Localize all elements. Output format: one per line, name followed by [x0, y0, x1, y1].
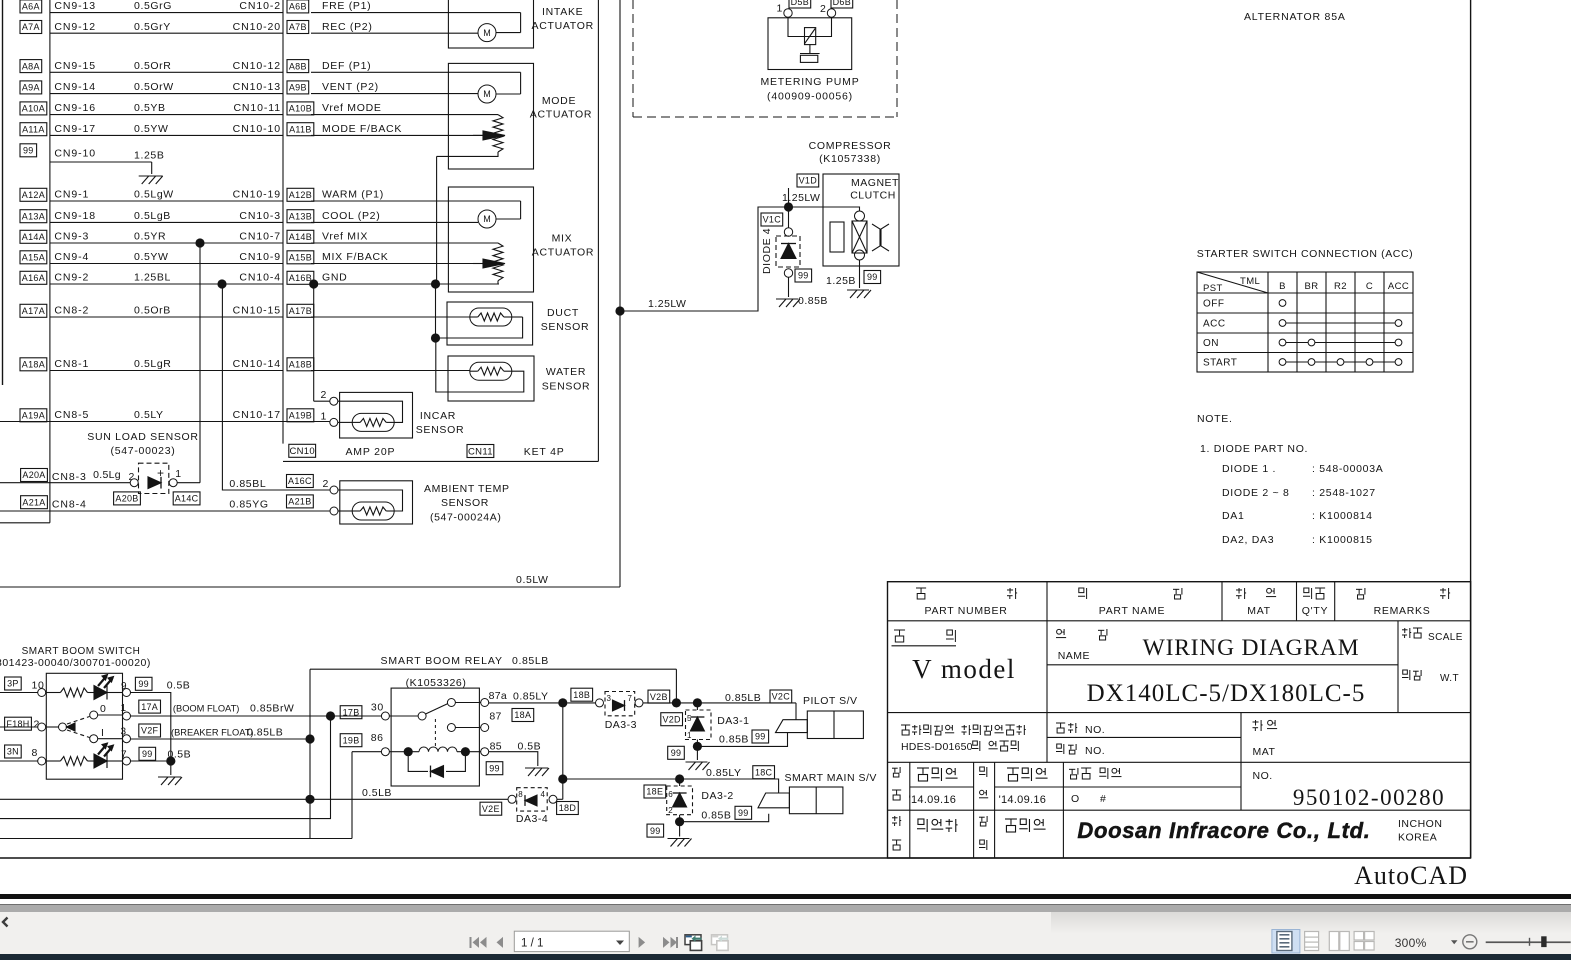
svg-text:CN9-2: CN9-2: [54, 272, 89, 284]
svg-text:(547-00023): (547-00023): [111, 445, 176, 457]
svg-text:19B: 19B: [343, 735, 360, 745]
svg-text:0.5GrG: 0.5GrG: [134, 0, 172, 12]
svg-text:V2F: V2F: [141, 726, 159, 736]
svg-text:A20B: A20B: [115, 494, 138, 504]
svg-text:A9A: A9A: [22, 83, 40, 93]
svg-text:2: 2: [668, 806, 673, 815]
svg-text:: 548-00003A: : 548-00003A: [1312, 463, 1383, 475]
svg-text:8: 8: [32, 747, 38, 759]
svg-text:ALTERNATOR 85A: ALTERNATOR 85A: [1244, 11, 1346, 23]
svg-text:MODE: MODE: [542, 95, 576, 107]
svg-text:'14.09.16: '14.09.16: [909, 794, 957, 806]
svg-text:0.85LB: 0.85LB: [512, 655, 549, 667]
svg-text:MAT: MAT: [1253, 746, 1276, 758]
svg-text:NO.: NO.: [1253, 770, 1273, 782]
svg-text:Doosan Infracore Co., Ltd.: Doosan Infracore Co., Ltd.: [1077, 818, 1370, 843]
svg-text:DX140LC-5/DX180LC-5: DX140LC-5/DX180LC-5: [1087, 680, 1366, 707]
svg-text:99: 99: [650, 826, 661, 836]
svg-text:MIX: MIX: [552, 233, 573, 245]
svg-text:PART NAME: PART NAME: [1099, 605, 1165, 617]
svg-text:CN10-20: CN10-20: [233, 21, 281, 33]
svg-text:NAME: NAME: [1058, 650, 1090, 662]
svg-text:A12B: A12B: [289, 190, 312, 200]
svg-text:CN9-12: CN9-12: [54, 21, 96, 33]
svg-text:(BOOM FLOAT): (BOOM FLOAT): [173, 704, 239, 714]
svg-text:CLUTCH: CLUTCH: [850, 190, 896, 202]
svg-text:DA3-3: DA3-3: [605, 719, 637, 731]
svg-text:C: C: [1366, 281, 1373, 292]
svg-text:A14B: A14B: [289, 232, 312, 242]
svg-text:3: 3: [607, 694, 612, 703]
svg-text:: K1000815: : K1000815: [1312, 534, 1373, 546]
svg-text:0.5YR: 0.5YR: [134, 231, 166, 243]
svg-text:KOREA: KOREA: [1398, 832, 1437, 844]
svg-text:A15B: A15B: [289, 253, 312, 263]
svg-text:0.85BrW: 0.85BrW: [250, 703, 294, 715]
svg-text:W.T: W.T: [1440, 673, 1459, 684]
svg-text:V2E: V2E: [482, 804, 500, 814]
svg-text:R2: R2: [1334, 281, 1347, 292]
svg-text:A11B: A11B: [289, 124, 312, 134]
svg-text:2: 2: [820, 3, 826, 15]
svg-text:ACC: ACC: [1388, 281, 1409, 292]
svg-text:SCALE: SCALE: [1428, 632, 1463, 643]
svg-text:A9B: A9B: [289, 83, 307, 93]
svg-text:A15A: A15A: [22, 253, 45, 263]
svg-text:87a: 87a: [489, 690, 507, 702]
svg-text:MODE F/BACK: MODE F/BACK: [322, 123, 402, 135]
svg-text:7: 7: [627, 694, 632, 703]
svg-text:TML: TML: [1240, 276, 1260, 287]
svg-text:0.5B: 0.5B: [518, 741, 542, 753]
svg-text:: 2548-1027: : 2548-1027: [1312, 487, 1376, 499]
svg-text:A12A: A12A: [22, 190, 45, 200]
svg-text:A11A: A11A: [22, 124, 45, 134]
svg-text:1.25B: 1.25B: [826, 275, 856, 287]
svg-text:INCHON: INCHON: [1398, 818, 1442, 830]
svg-text:2: 2: [321, 389, 327, 401]
svg-text:99: 99: [798, 271, 809, 281]
svg-text:CN10-10: CN10-10: [233, 123, 281, 135]
svg-text:0.5LgR: 0.5LgR: [134, 358, 171, 370]
svg-text:9: 9: [121, 681, 127, 692]
svg-text:17A: 17A: [141, 702, 158, 712]
svg-text:CN10-11: CN10-11: [233, 102, 281, 114]
svg-text:1. DIODE PART NO.: 1. DIODE PART NO.: [1200, 443, 1308, 455]
svg-text:99: 99: [867, 272, 878, 282]
svg-text:START: START: [1203, 358, 1237, 369]
svg-text:PILOT S/V: PILOT S/V: [803, 695, 858, 707]
svg-text:DIODE 4: DIODE 4: [761, 228, 773, 274]
svg-text:6: 6: [668, 790, 673, 799]
svg-text:1.25LW: 1.25LW: [648, 298, 686, 310]
svg-text:SUN LOAD SENSOR: SUN LOAD SENSOR: [87, 431, 198, 443]
svg-text:AMP 20P: AMP 20P: [346, 446, 396, 458]
svg-text:SENSOR: SENSOR: [541, 321, 590, 333]
svg-text:D5B: D5B: [791, 0, 809, 7]
svg-text:CN10-17: CN10-17: [233, 409, 281, 421]
svg-text:A14A: A14A: [22, 232, 45, 242]
svg-text:0.5YW: 0.5YW: [134, 251, 169, 263]
svg-text:A7B: A7B: [289, 22, 307, 32]
svg-text:INTAKE: INTAKE: [542, 6, 583, 18]
svg-text:'14.09.16: '14.09.16: [999, 794, 1047, 806]
svg-text:3N: 3N: [7, 747, 19, 757]
svg-text:COMPRESSOR: COMPRESSOR: [809, 140, 892, 152]
svg-text:M: M: [483, 89, 491, 99]
svg-text:ACC: ACC: [1203, 319, 1226, 330]
svg-text:99: 99: [142, 749, 153, 759]
svg-text:0.5OrW: 0.5OrW: [134, 81, 174, 93]
svg-text:CN9-16: CN9-16: [54, 102, 96, 114]
svg-text:CN9-1: CN9-1: [54, 189, 89, 201]
svg-text:7: 7: [121, 750, 127, 761]
svg-text:DA3-1: DA3-1: [717, 715, 749, 727]
svg-text:CN10-4: CN10-4: [239, 272, 281, 284]
svg-text:REMARKS: REMARKS: [1374, 605, 1431, 617]
svg-text:A7A: A7A: [22, 22, 40, 32]
svg-text:DA3-2: DA3-2: [701, 790, 733, 802]
svg-text:0.5LY: 0.5LY: [134, 409, 164, 421]
svg-text:0: 0: [100, 703, 106, 715]
svg-text:0.85B: 0.85B: [701, 810, 731, 822]
svg-text:A10B: A10B: [289, 104, 312, 114]
svg-text:Vref MODE: Vref MODE: [322, 102, 382, 114]
svg-text:B: B: [1279, 281, 1286, 292]
svg-text:FRE (P1): FRE (P1): [322, 0, 371, 12]
svg-text:CN11: CN11: [468, 446, 493, 457]
svg-text:DA1: DA1: [1222, 510, 1245, 522]
svg-text:A20A: A20A: [22, 470, 45, 480]
svg-text:86: 86: [371, 732, 384, 744]
svg-text:DIODE 1 .: DIODE 1 .: [1222, 463, 1276, 475]
svg-text:(547-00024A): (547-00024A): [430, 512, 501, 524]
svg-text:CN10-12: CN10-12: [233, 60, 281, 72]
svg-text:NOTE.: NOTE.: [1197, 413, 1233, 425]
svg-text:87: 87: [489, 711, 501, 723]
svg-text:3: 3: [121, 727, 127, 738]
svg-text:A21B: A21B: [288, 497, 311, 507]
svg-text:1.25BL: 1.25BL: [134, 272, 171, 284]
svg-text:1: 1: [321, 411, 327, 423]
svg-text:CN8-4: CN8-4: [52, 499, 87, 511]
svg-text:CN9-15: CN9-15: [54, 60, 96, 72]
svg-text:CN10-7: CN10-7: [239, 231, 281, 243]
svg-text:A17A: A17A: [22, 306, 45, 316]
svg-text:METERING PUMP: METERING PUMP: [760, 76, 859, 88]
svg-text:Vref MIX: Vref MIX: [322, 231, 368, 243]
svg-text:99: 99: [671, 748, 682, 758]
svg-text:A13B: A13B: [289, 211, 312, 221]
svg-text:2: 2: [322, 478, 328, 490]
svg-text:99: 99: [738, 808, 749, 818]
svg-text:99: 99: [23, 146, 34, 156]
svg-text:SENSOR: SENSOR: [416, 424, 465, 436]
svg-text:A8A: A8A: [22, 61, 40, 71]
svg-text:A8B: A8B: [289, 61, 307, 71]
svg-text:1: 1: [687, 731, 692, 740]
svg-text:A14C: A14C: [175, 494, 199, 504]
svg-text:CN9-13: CN9-13: [54, 0, 96, 12]
svg-text:KET 4P: KET 4P: [524, 446, 565, 458]
svg-text:V1C: V1C: [763, 215, 782, 225]
svg-text:STARTER SWITCH CONNECTION (ACC: STARTER SWITCH CONNECTION (ACC): [1197, 248, 1414, 260]
svg-text:17B: 17B: [343, 707, 360, 717]
svg-text:CN10-15: CN10-15: [233, 305, 281, 317]
svg-text:A19B: A19B: [289, 411, 312, 421]
svg-text:A18A: A18A: [22, 360, 45, 370]
svg-text:CN10-13: CN10-13: [233, 81, 281, 93]
svg-text:V model: V model: [912, 654, 1016, 684]
svg-text:3P: 3P: [7, 679, 19, 689]
svg-text:0.5OrB: 0.5OrB: [134, 305, 171, 317]
svg-text:+: +: [157, 466, 165, 480]
svg-text:CN9-4: CN9-4: [54, 251, 89, 263]
svg-text:0.85B: 0.85B: [798, 295, 828, 307]
svg-text:99: 99: [489, 763, 500, 773]
svg-text:CN9-3: CN9-3: [54, 231, 89, 243]
svg-text:HDES-D01650: HDES-D01650: [901, 741, 973, 753]
svg-text:CN8-1: CN8-1: [54, 358, 89, 370]
svg-text:CN9-17: CN9-17: [54, 123, 96, 135]
svg-text:CN8-5: CN8-5: [54, 409, 89, 421]
svg-text:ON: ON: [1203, 338, 1219, 349]
svg-text:MAT: MAT: [1247, 605, 1271, 617]
svg-text:0.5YB: 0.5YB: [134, 102, 166, 114]
svg-text:18C: 18C: [755, 767, 773, 777]
svg-text:A21A: A21A: [22, 497, 45, 507]
svg-text:0.5B: 0.5B: [167, 680, 191, 692]
svg-text:DA2, DA3: DA2, DA3: [1222, 534, 1274, 546]
svg-text:ACTUATOR: ACTUATOR: [532, 247, 594, 259]
svg-text:A16C: A16C: [288, 476, 312, 486]
svg-text:V2C: V2C: [772, 692, 791, 702]
svg-text:0.85B: 0.85B: [719, 734, 749, 746]
svg-text:CN10-14: CN10-14: [233, 358, 281, 370]
svg-text:WIRING DIAGRAM: WIRING DIAGRAM: [1143, 635, 1360, 661]
svg-text:ACTUATOR: ACTUATOR: [532, 20, 594, 32]
svg-text:WARM (P1): WARM (P1): [322, 189, 384, 201]
svg-text:950102-00280: 950102-00280: [1293, 785, 1445, 810]
svg-text:(K1053326): (K1053326): [406, 677, 467, 689]
svg-text:A10A: A10A: [22, 104, 45, 114]
svg-text:D6B: D6B: [833, 0, 851, 7]
svg-text:CN9-18: CN9-18: [54, 210, 96, 222]
svg-text:0.5LgW: 0.5LgW: [134, 189, 174, 201]
svg-text:18D: 18D: [559, 803, 577, 813]
svg-text:0.5GrY: 0.5GrY: [134, 21, 171, 33]
svg-text:Q'TY: Q'TY: [1302, 605, 1328, 617]
svg-text:18B: 18B: [573, 690, 590, 700]
svg-text:0.85BL: 0.85BL: [229, 478, 266, 490]
svg-text:85: 85: [490, 741, 502, 753]
svg-text:99: 99: [755, 732, 766, 742]
svg-text:OFF: OFF: [1203, 299, 1225, 310]
svg-text:CN8-3: CN8-3: [52, 471, 87, 483]
svg-text:1.25LW: 1.25LW: [782, 192, 820, 204]
svg-text:MAGNET: MAGNET: [851, 177, 899, 189]
svg-text:0.5LB: 0.5LB: [362, 787, 392, 799]
svg-text:INCAR: INCAR: [420, 410, 456, 422]
svg-text:COOL (P2): COOL (P2): [322, 210, 380, 222]
svg-text:CN9-10: CN9-10: [54, 147, 96, 159]
svg-text:4: 4: [540, 790, 545, 799]
svg-text:A13A: A13A: [22, 211, 45, 221]
svg-text:A18B: A18B: [289, 360, 312, 370]
svg-text:M: M: [483, 28, 491, 38]
svg-text:DIODE 2 ~ 8: DIODE 2 ~ 8: [1222, 487, 1290, 499]
svg-text:CN10-2: CN10-2: [239, 0, 281, 12]
svg-text:(K1057338): (K1057338): [819, 153, 881, 165]
svg-text:18E: 18E: [646, 787, 663, 797]
svg-text:0.85LY: 0.85LY: [706, 767, 742, 779]
svg-text:: K1000814: : K1000814: [1312, 510, 1373, 522]
svg-text:(BREAKER FLOAT): (BREAKER FLOAT): [171, 728, 253, 738]
svg-text:A6A: A6A: [22, 2, 40, 12]
svg-text:SMART MAIN S/V: SMART MAIN S/V: [785, 772, 877, 784]
svg-text:1.25B: 1.25B: [134, 150, 164, 162]
svg-text:CN9-14: CN9-14: [54, 81, 96, 93]
svg-text:0.5OrR: 0.5OrR: [134, 60, 171, 72]
svg-text:NO.: NO.: [1085, 745, 1105, 757]
svg-text:5: 5: [687, 714, 692, 723]
svg-text:A6B: A6B: [289, 2, 307, 12]
svg-text:(301423-00040/300701-00020): (301423-00040/300701-00020): [0, 657, 151, 669]
svg-text:0.5LgB: 0.5LgB: [134, 210, 171, 222]
svg-text:CN8-2: CN8-2: [54, 305, 89, 317]
svg-text:1: 1: [777, 3, 783, 15]
svg-text:SENSOR: SENSOR: [542, 381, 591, 393]
svg-text:M: M: [483, 214, 491, 224]
svg-text:ACTUATOR: ACTUATOR: [530, 109, 592, 121]
svg-text:NO.: NO.: [1085, 724, 1105, 736]
svg-text:SMART BOOM SWITCH: SMART BOOM SWITCH: [22, 646, 141, 657]
svg-text:SMART BOOM RELAY: SMART BOOM RELAY: [381, 655, 503, 667]
svg-text:MIX F/BACK: MIX F/BACK: [322, 251, 389, 263]
svg-text:CN10-9: CN10-9: [239, 251, 281, 263]
svg-text:CN10-19: CN10-19: [233, 189, 281, 201]
svg-text:1: 1: [175, 468, 181, 480]
svg-text:A16A: A16A: [22, 273, 45, 283]
svg-text:0.85LB: 0.85LB: [247, 727, 283, 739]
svg-text:1: 1: [121, 703, 127, 714]
svg-text:GND: GND: [322, 272, 347, 284]
svg-text:V2B: V2B: [650, 692, 668, 702]
svg-text:DUCT: DUCT: [547, 307, 579, 319]
svg-text:30: 30: [371, 702, 384, 714]
svg-text:DA3-4: DA3-4: [516, 813, 548, 825]
svg-text:PART NUMBER: PART NUMBER: [925, 605, 1008, 617]
svg-text:0.85YG: 0.85YG: [229, 499, 268, 511]
svg-text:A17B: A17B: [289, 306, 312, 316]
svg-text:DEF (P1): DEF (P1): [322, 60, 371, 72]
svg-text:PST: PST: [1203, 283, 1223, 294]
svg-text:A19A: A19A: [22, 411, 45, 421]
svg-text:VENT (P2): VENT (P2): [322, 81, 379, 93]
svg-text:V2D: V2D: [662, 714, 681, 724]
svg-text:AutoCAD: AutoCAD: [1354, 861, 1468, 890]
svg-text:0.5LW: 0.5LW: [516, 574, 549, 586]
svg-text:CN10-3: CN10-3: [239, 210, 281, 222]
svg-text:WATER: WATER: [546, 366, 586, 378]
svg-text:(400909-00056): (400909-00056): [767, 91, 853, 103]
svg-text:REC (P2): REC (P2): [322, 21, 373, 33]
svg-text:I: I: [101, 727, 105, 739]
svg-text:AMBIENT TEMP: AMBIENT TEMP: [424, 483, 510, 495]
svg-text:0.5Lg: 0.5Lg: [93, 469, 121, 481]
svg-text:#: #: [1100, 793, 1106, 805]
svg-text:0.85LB: 0.85LB: [725, 692, 761, 704]
svg-text:BR: BR: [1305, 281, 1319, 292]
svg-text:SENSOR: SENSOR: [441, 497, 489, 509]
svg-text:A16B: A16B: [289, 273, 312, 283]
svg-text:99: 99: [138, 679, 149, 689]
svg-text:V1D: V1D: [799, 176, 818, 186]
svg-text:0.5YW: 0.5YW: [134, 123, 169, 135]
svg-text:18A: 18A: [514, 710, 531, 720]
svg-text:8: 8: [518, 790, 523, 799]
svg-text:O: O: [1071, 793, 1080, 805]
svg-text:CN10: CN10: [289, 446, 315, 457]
svg-text:0.85LY: 0.85LY: [513, 691, 549, 703]
